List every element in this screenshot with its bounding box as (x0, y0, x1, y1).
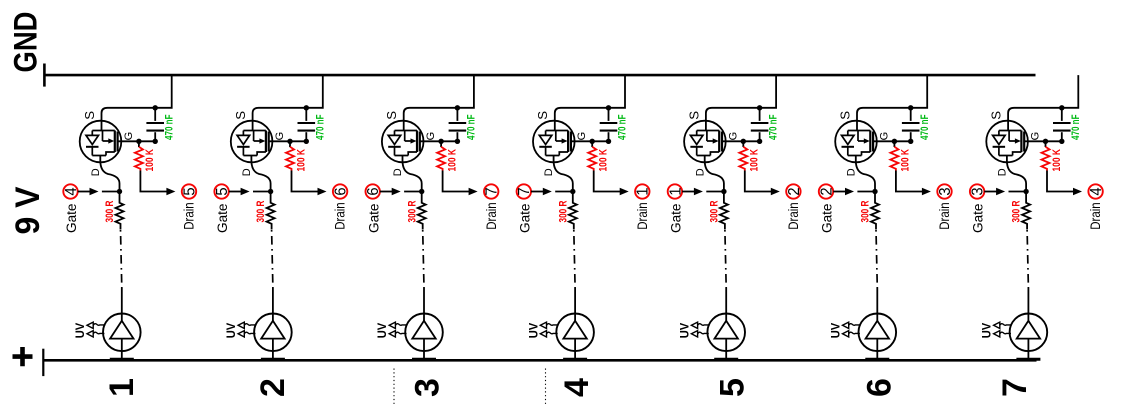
svg-text:1: 1 (667, 187, 684, 195)
value label 470 nF (617, 114, 629, 140)
UV emission arrows (238, 322, 256, 337)
gate connector 2 (818, 184, 835, 198)
LED 7 (UV) (1010, 314, 1048, 362)
svg-text:G: G (123, 132, 135, 141)
svg-text:470 nF: 470 nF (919, 114, 931, 140)
junction: source node / C1 top (153, 105, 158, 110)
capacitor C6 470 nF (902, 109, 920, 141)
capacitor C1 470 nF (146, 109, 164, 141)
wire: gate connector arrow into node (78, 188, 120, 195)
svg-text:S: S (535, 111, 550, 120)
label Drain (484, 202, 500, 230)
svg-text:Drain: Drain (937, 202, 953, 230)
MOSFET Q1 (80, 121, 122, 163)
wire (dashed) to LED 3 (423, 230, 424, 314)
svg-text:100 K: 100 K (900, 149, 912, 172)
svg-text:100 K: 100 K (1051, 149, 1063, 172)
svg-text:S: S (82, 111, 97, 120)
wire: 100K to drain connector, with arrow (896, 171, 931, 196)
svg-text:Drain: Drain (484, 202, 500, 230)
UV emission arrows (389, 322, 407, 337)
wire: source of Q4 to GND rail (555, 75, 625, 131)
wire: source of Q5 to GND rail (706, 75, 776, 131)
wire: 100K to drain connector, with arrow (140, 171, 175, 196)
junction: gate / C5 bottom (757, 139, 762, 144)
label Drain (1088, 202, 1104, 230)
label Gate (366, 203, 382, 233)
wire: drain of Q6 down to node (856, 156, 875, 190)
label Drain (786, 202, 802, 230)
junction: gate / R7 top (1043, 139, 1048, 144)
Q4 pin label G (576, 132, 588, 141)
svg-text:S: S (837, 111, 852, 120)
wire: drain of Q4 down to node (554, 156, 573, 190)
Q6 pin label D (845, 168, 857, 176)
resistor 100 K (gate pulldown) (890, 141, 898, 170)
svg-text:1: 1 (103, 378, 141, 397)
value label 300 R (1011, 200, 1023, 222)
resistor 300 R (871, 194, 879, 230)
svg-text:UV: UV (829, 323, 843, 339)
wire (dashed) to LED 2 (272, 230, 273, 314)
junction: node (Q7 drain / gate in / 300R) (1023, 189, 1028, 194)
svg-text:D: D (694, 168, 706, 176)
junction: gate / C6 bottom (908, 139, 913, 144)
UV emission arrows (87, 322, 105, 337)
junction: node (Q2 drain / gate in / 300R) (268, 189, 273, 194)
svg-text:UV: UV (73, 323, 87, 339)
value label 100 K (144, 149, 156, 172)
LED 6 (UV) (859, 314, 897, 362)
gate connector 3 (970, 184, 987, 198)
resistor 300 R (1022, 194, 1030, 230)
svg-text:G: G (1030, 132, 1042, 141)
label Gate (820, 203, 836, 233)
gate connector 1 (667, 184, 684, 198)
Q7 pin label S (989, 111, 1004, 120)
label UV (829, 323, 843, 339)
Q6 pin label S (837, 111, 852, 120)
wire: 100K to drain connector, with arrow (594, 171, 629, 196)
gate connector 6 (365, 184, 382, 198)
wire (dashed) to LED 4 (574, 230, 575, 314)
wire: gate connector arrow into node (380, 188, 422, 195)
svg-text:Drain: Drain (786, 202, 802, 230)
label UV (73, 323, 87, 339)
value label 100 K (900, 149, 912, 172)
junction: gate / C3 bottom (455, 139, 460, 144)
svg-text:GND: GND (8, 12, 44, 73)
Q7 pin label D (997, 168, 1009, 176)
wire: source of Q3 to GND rail (404, 75, 474, 131)
junction: node (Q5 drain / gate in / 300R) (721, 189, 726, 194)
Q1 pin label D (90, 168, 102, 176)
svg-text:S: S (989, 111, 1004, 120)
svg-text:Drain: Drain (635, 202, 651, 230)
label UV (980, 323, 994, 339)
svg-text:D: D (90, 168, 102, 176)
svg-text:UV: UV (677, 323, 691, 339)
svg-text:100 K: 100 K (446, 149, 458, 172)
svg-text:Gate: Gate (215, 203, 231, 233)
value label 300 R (557, 200, 569, 222)
svg-text:Gate: Gate (366, 203, 382, 233)
junction: gate / R1 top (136, 139, 141, 144)
svg-text:3: 3 (970, 187, 987, 195)
label Gate (971, 203, 987, 233)
wire: gate of Q2 (269, 140, 307, 142)
junction: source node / C6 top (908, 105, 913, 110)
svg-text:2: 2 (818, 187, 835, 195)
Q5 pin label G (727, 132, 739, 141)
svg-text:UV: UV (980, 323, 994, 339)
svg-text:7: 7 (516, 187, 533, 195)
drain connector 6 (333, 184, 350, 198)
value label 470 nF (919, 114, 931, 140)
wire: source of Q1 to GND rail (102, 75, 172, 131)
svg-text:4: 4 (1088, 187, 1105, 196)
junction: node (Q4 drain / gate in / 300R) (570, 189, 575, 194)
9 V supply label (9, 186, 47, 234)
drain connector 3 (937, 184, 954, 198)
wire: 100K to drain connector, with arrow (443, 171, 478, 196)
channel number 3 (408, 378, 446, 397)
MOSFET Q6 (835, 121, 877, 163)
svg-text:G: G (425, 132, 437, 141)
value label 300 R (860, 200, 872, 222)
wire: source of Q6 to GND rail (857, 75, 927, 131)
drain connector 7 (484, 184, 501, 198)
Q4 pin label S (535, 111, 550, 120)
junction: source node / C7 top (1059, 105, 1064, 110)
channel number 7 (996, 378, 1034, 397)
Q4 pin label D (543, 168, 555, 176)
svg-text:470 nF: 470 nF (314, 114, 326, 140)
svg-text:100 K: 100 K (295, 149, 307, 172)
svg-text:6: 6 (333, 187, 350, 195)
junction: gate / R3 top (438, 139, 443, 144)
resistor 300 R (569, 194, 577, 230)
wire (dashed) to LED 5 (725, 230, 726, 314)
value label 100 K (295, 149, 307, 172)
capacitor C7 470 nF (1053, 109, 1071, 141)
label UV (526, 323, 540, 339)
svg-text:D: D (543, 168, 555, 176)
svg-text:2: 2 (254, 378, 292, 397)
resistor 100 K (gate pulldown) (588, 141, 596, 170)
value label 470 nF (314, 114, 326, 140)
wire: drain of Q2 down to node (251, 156, 270, 190)
junction: source node / C2 top (304, 105, 309, 110)
label UV (375, 323, 389, 339)
LED 1 (UV) (103, 314, 141, 362)
Q7 pin label G (1030, 132, 1042, 141)
Q5 pin label D (694, 168, 706, 176)
value label 470 nF (163, 114, 175, 140)
Q2 pin label D (241, 168, 253, 176)
svg-text:Gate: Gate (64, 203, 80, 233)
wire: gate connector arrow into node (531, 188, 573, 195)
wire: gate connector arrow into node (984, 188, 1026, 195)
junction: gate / C4 bottom (606, 139, 611, 144)
wire: source of Q7 to GND rail (1008, 75, 1078, 131)
wire: drain of Q3 down to node (403, 156, 422, 190)
svg-text:UV: UV (526, 323, 540, 339)
wire: gate of Q4 (571, 140, 609, 142)
svg-text:D: D (392, 168, 404, 176)
wire (dashed) to LED 7 (1027, 230, 1028, 314)
svg-text:S: S (686, 111, 701, 120)
svg-text:300 R: 300 R (104, 200, 116, 222)
svg-text:300 R: 300 R (1011, 200, 1023, 222)
svg-text:470 nF: 470 nF (768, 114, 780, 140)
svg-text:7: 7 (996, 378, 1034, 397)
MOSFET Q4 (533, 121, 575, 163)
Q5 pin label S (686, 111, 701, 120)
svg-text:5: 5 (214, 187, 231, 195)
gate connector 5 (214, 184, 231, 198)
svg-text:Gate: Gate (971, 203, 987, 233)
junction: source node / C5 top (757, 105, 762, 110)
svg-text:300 R: 300 R (255, 200, 267, 222)
gate connector 4 (63, 184, 80, 198)
junction: node (Q1 drain / gate in / 300R) (117, 189, 122, 194)
svg-text:7: 7 (484, 187, 501, 195)
value label 300 R (255, 200, 267, 222)
svg-text:5: 5 (713, 378, 751, 397)
svg-text:Drain: Drain (1088, 202, 1104, 230)
MOSFET Q2 (231, 121, 273, 163)
svg-text:6: 6 (860, 378, 898, 397)
LED 5 (UV) (707, 314, 745, 362)
svg-text:G: G (878, 132, 890, 141)
wire (dashed) to LED 6 (876, 230, 877, 314)
Q3 pin label D (392, 168, 404, 176)
wire: drain of Q5 down to node (705, 156, 724, 190)
gate connector 7 (516, 184, 533, 198)
junction: gate / C2 bottom (304, 139, 309, 144)
drain connector 5 (181, 184, 198, 198)
junction: node (Q6 drain / gate in / 300R) (872, 189, 877, 194)
value label 100 K (446, 149, 458, 172)
resistor 100 K (gate pulldown) (135, 141, 143, 170)
wire: 100K to drain connector, with arrow (292, 171, 327, 196)
resistor 300 R (116, 194, 124, 230)
junction: gate / R4 top (590, 139, 595, 144)
Q1 pin label S (82, 111, 97, 120)
label Drain (182, 202, 198, 230)
svg-text:UV: UV (375, 323, 389, 339)
wire (dashed) to LED 1 (121, 230, 122, 314)
resistor 300 R (720, 194, 728, 230)
+ rail (9V positive) (43, 349, 1036, 376)
junction: gate / C1 bottom (153, 139, 158, 144)
svg-text:4: 4 (63, 187, 80, 196)
svg-text:470 nF: 470 nF (163, 114, 175, 140)
drain connector 1 (635, 184, 652, 198)
svg-text:4: 4 (558, 378, 596, 397)
MOSFET Q7 (986, 121, 1028, 163)
label Drain (937, 202, 953, 230)
MOSFET Q5 (684, 121, 726, 163)
channel number 2 (254, 378, 292, 397)
wire: drain of Q7 down to node (1007, 156, 1026, 190)
svg-text:D: D (997, 168, 1009, 176)
Q1 pin label G (123, 132, 135, 141)
channel number 5 (713, 378, 751, 397)
capacitor C3 470 nF (449, 109, 467, 141)
resistor 100 K (gate pulldown) (286, 141, 294, 170)
svg-text:G: G (274, 132, 286, 141)
label UV (677, 323, 691, 339)
junction: gate / C7 bottom (1059, 139, 1064, 144)
svg-text:Gate: Gate (669, 203, 685, 233)
label UV (224, 323, 238, 339)
resistor 300 R (267, 194, 275, 230)
wire: drain of Q1 down to node (100, 156, 119, 190)
label Gate (215, 203, 231, 233)
value label 100 K (749, 149, 761, 172)
Q2 pin label S (233, 111, 248, 120)
svg-text:470 nF: 470 nF (617, 114, 629, 140)
Q3 pin label S (384, 111, 399, 120)
capacitor C4 470 nF (600, 109, 618, 141)
resistor 100 K (gate pulldown) (739, 141, 747, 170)
LED 3 (UV) (405, 314, 443, 362)
svg-text:470 nF: 470 nF (466, 114, 478, 140)
label Gate (517, 203, 533, 233)
svg-text:100 K: 100 K (598, 149, 610, 172)
wire: gate of Q7 (1024, 140, 1062, 142)
wire: gate of Q5 (722, 140, 760, 142)
wire: 100K to drain connector, with arrow (745, 171, 780, 196)
dotted separator line (between channels 2 and 3) (393, 369, 395, 404)
svg-text:300 R: 300 R (406, 200, 418, 222)
svg-text:9 V: 9 V (9, 186, 47, 234)
svg-text:300 R: 300 R (709, 200, 721, 222)
value label 100 K (598, 149, 610, 172)
svg-text:D: D (241, 168, 253, 176)
resistor 300 R (418, 194, 426, 230)
drain connector 2 (786, 184, 803, 198)
svg-text:S: S (384, 111, 399, 120)
junction: gate / R5 top (741, 139, 746, 144)
channel number 4 (558, 378, 596, 397)
Q3 pin label G (425, 132, 437, 141)
Q6 pin label G (878, 132, 890, 141)
channel number 1 (103, 378, 141, 397)
MOSFET Q3 (382, 121, 424, 163)
value label 100 K (1051, 149, 1063, 172)
svg-text:G: G (727, 132, 739, 141)
value label 470 nF (1070, 114, 1082, 140)
wire: gate connector arrow into node (833, 188, 875, 195)
svg-text:1: 1 (635, 187, 652, 195)
label Gate (669, 203, 685, 233)
svg-text:3: 3 (408, 378, 446, 397)
wire: gate connector arrow into node (229, 188, 271, 195)
wire: source of Q2 to GND rail (253, 75, 323, 131)
svg-text:300 R: 300 R (557, 200, 569, 222)
junction: gate / R6 top (892, 139, 897, 144)
value label 300 R (104, 200, 116, 222)
svg-text:100 K: 100 K (144, 149, 156, 172)
+ label (13, 347, 33, 366)
wire: gate of Q6 (873, 140, 911, 142)
svg-text:Gate: Gate (517, 203, 533, 233)
svg-text:Drain: Drain (333, 202, 349, 230)
UV emission arrows (540, 322, 558, 337)
UV emission arrows (843, 322, 861, 337)
resistor 100 K (gate pulldown) (437, 141, 445, 170)
svg-text:3: 3 (937, 187, 954, 195)
junction: node (Q3 drain / gate in / 300R) (419, 189, 424, 194)
value label 300 R (406, 200, 418, 222)
label Drain (635, 202, 651, 230)
junction: source node / C4 top (606, 105, 611, 110)
channel number 6 (860, 378, 898, 397)
svg-text:D: D (845, 168, 857, 176)
resistor 100 K (gate pulldown) (1042, 141, 1050, 170)
UV emission arrows (994, 322, 1012, 337)
wire: gate of Q3 (420, 140, 458, 142)
dotted separator line (between channels 3 and 4) (545, 369, 547, 404)
GND net label (8, 12, 44, 73)
svg-text:5: 5 (181, 187, 198, 195)
value label 300 R (709, 200, 721, 222)
wire: gate connector arrow into node (682, 188, 724, 195)
wire: gate of Q1 (118, 140, 156, 142)
capacitor C2 470 nF (298, 109, 316, 141)
junction: source node / C3 top (455, 105, 460, 110)
UV emission arrows (691, 322, 709, 337)
svg-text:S: S (233, 111, 248, 120)
LED 2 (UV) (254, 314, 292, 362)
label Gate (64, 203, 80, 233)
GND rail (44, 64, 1035, 87)
svg-text:2: 2 (786, 187, 803, 195)
capacitor C5 470 nF (751, 109, 769, 141)
wire: 100K to drain connector, with arrow (1047, 171, 1082, 196)
svg-text:Drain: Drain (182, 202, 198, 230)
svg-text:300 R: 300 R (860, 200, 872, 222)
drain connector 4 (1088, 184, 1105, 198)
svg-text:Gate: Gate (820, 203, 836, 233)
junction: gate / R2 top (287, 139, 292, 144)
svg-text:G: G (576, 132, 588, 141)
label Drain (333, 202, 349, 230)
svg-text:UV: UV (224, 323, 238, 339)
svg-text:6: 6 (365, 187, 382, 195)
Q2 pin label G (274, 132, 286, 141)
LED 4 (UV) (556, 314, 594, 362)
svg-text:470 nF: 470 nF (1070, 114, 1082, 140)
value label 470 nF (466, 114, 478, 140)
svg-text:100 K: 100 K (749, 149, 761, 172)
value label 470 nF (768, 114, 780, 140)
